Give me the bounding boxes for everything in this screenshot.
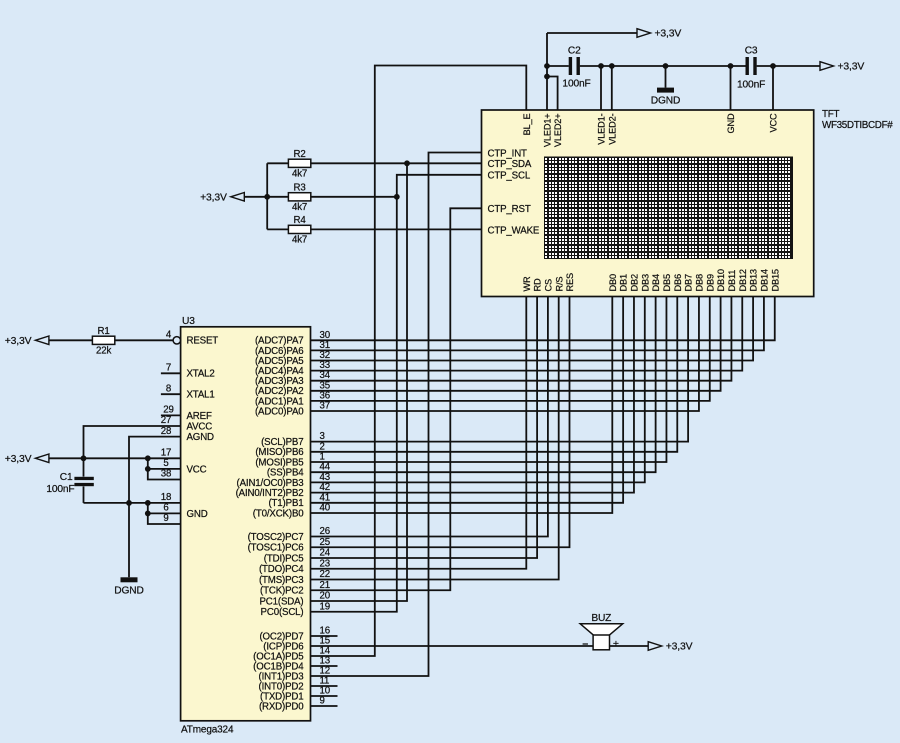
svg-text:+3,3V: +3,3V [655,29,682,40]
svg-text:R2: R2 [294,149,306,160]
svg-text:+3,3V: +3,3V [5,336,32,347]
svg-text:DB12: DB12 [738,269,748,291]
svg-text:DB4: DB4 [651,274,661,291]
svg-text:R1: R1 [98,326,110,337]
svg-text:4k7: 4k7 [292,235,307,246]
svg-text:U3: U3 [182,316,195,327]
svg-text:BUZ: BUZ [591,613,611,624]
svg-text:RES: RES [565,273,575,291]
svg-text:CTP_RST: CTP_RST [488,204,531,215]
svg-text:CTP_SDA: CTP_SDA [488,159,532,170]
svg-text:28: 28 [161,426,171,437]
svg-text:4k7: 4k7 [292,169,307,180]
svg-text:DB8: DB8 [695,274,705,291]
svg-text:9: 9 [320,696,325,707]
svg-text:DGND: DGND [114,585,143,596]
svg-text:TFT: TFT [822,109,839,120]
svg-text:R3: R3 [294,183,306,194]
svg-text:VLED1-: VLED1- [597,113,607,144]
svg-text:VCC: VCC [769,113,779,132]
svg-text:(RXD)PD0: (RXD)PD0 [259,701,304,712]
svg-text:WR: WR [522,276,532,292]
svg-text:100nF: 100nF [737,80,765,91]
svg-text:29: 29 [163,405,173,416]
svg-text:4k7: 4k7 [292,202,307,213]
svg-text:CS: CS [544,279,554,291]
svg-text:8: 8 [166,383,171,394]
svg-text:38: 38 [161,469,171,480]
svg-text:DB15: DB15 [770,269,780,291]
svg-text:RD: RD [533,278,543,291]
svg-text:DB0: DB0 [608,274,618,291]
svg-text:(TOSC2)PC7: (TOSC2)PC7 [248,532,304,543]
svg-text:GND: GND [187,509,208,520]
svg-text:(TMS)PC3: (TMS)PC3 [259,575,304,586]
svg-text:27: 27 [161,415,171,426]
svg-text:–: – [582,638,588,650]
svg-text:100nF: 100nF [46,484,74,495]
svg-text:(TOSC1)PC6: (TOSC1)PC6 [248,543,304,554]
svg-text:C2: C2 [568,46,581,57]
svg-text:(TDI)PC5: (TDI)PC5 [264,553,304,564]
svg-text:26: 26 [320,526,330,537]
svg-text:PC1(SDA): PC1(SDA) [259,596,303,607]
svg-text:C1: C1 [60,472,73,483]
svg-text:4: 4 [166,330,172,341]
svg-text:AGND: AGND [187,432,215,443]
svg-text:DB11: DB11 [727,270,737,292]
svg-text:DB9: DB9 [705,274,715,291]
svg-text:20: 20 [320,591,331,602]
svg-text:(TCK)PC2: (TCK)PC2 [260,586,303,597]
svg-text:5: 5 [163,458,168,469]
svg-text:(T0/XCK)B0: (T0/XCK)B0 [253,508,304,519]
svg-text:RESET: RESET [187,336,219,347]
svg-text:22k: 22k [96,346,111,357]
svg-text:100nF: 100nF [562,79,590,90]
svg-text:DB10: DB10 [716,269,726,291]
svg-text:+3,3V: +3,3V [666,642,693,653]
svg-text:DB5: DB5 [662,274,672,291]
svg-text:R/S: R/S [554,277,564,292]
svg-text:VLED1+: VLED1+ [543,114,553,148]
svg-text:+3,3V: +3,3V [200,193,227,204]
svg-text:VLED2-: VLED2- [607,113,617,144]
svg-text:CTP_WAKE: CTP_WAKE [488,225,540,236]
svg-text:+3,3V: +3,3V [5,454,32,465]
svg-text:22: 22 [320,569,330,580]
svg-text:DB2: DB2 [630,274,640,291]
svg-text:25: 25 [320,537,330,548]
svg-text:23: 23 [320,558,330,569]
svg-text:AREF: AREF [187,411,212,422]
svg-text:VCC: VCC [187,464,207,475]
svg-text:WF35DTIBCDF#: WF35DTIBCDF# [822,120,893,131]
svg-text:(ADC0)PA0: (ADC0)PA0 [255,406,304,417]
svg-text:DB6: DB6 [673,274,683,291]
svg-text:19: 19 [320,601,330,612]
svg-text:XTAL2: XTAL2 [187,369,215,380]
svg-text:6: 6 [163,503,168,514]
svg-text:7: 7 [166,363,171,374]
svg-text:+: + [613,638,619,650]
svg-text:DB14: DB14 [760,269,770,291]
svg-text:BL_E: BL_E [522,113,532,135]
svg-text:R4: R4 [294,215,307,226]
svg-text:21: 21 [320,580,330,591]
svg-text:17: 17 [161,448,171,459]
svg-text:XTAL1: XTAL1 [187,390,215,401]
svg-text:37: 37 [320,401,330,412]
svg-text:24: 24 [320,548,331,559]
svg-text:18: 18 [161,492,171,503]
svg-text:ATmega324: ATmega324 [181,724,234,735]
svg-text:DB1: DB1 [619,274,629,291]
svg-text:GND: GND [726,113,736,133]
svg-text:CTP_SCL: CTP_SCL [488,171,531,182]
svg-text:AVCC: AVCC [187,421,213,432]
svg-text:C3: C3 [745,46,758,57]
svg-text:DB7: DB7 [684,274,694,291]
svg-text:DB13: DB13 [749,269,759,291]
svg-text:PC0(SCL): PC0(SCL) [261,607,304,618]
svg-text:(TDO)PC4: (TDO)PC4 [259,564,304,575]
svg-text:9: 9 [163,513,168,524]
svg-text:+3,3V: +3,3V [838,62,865,73]
svg-text:CTP_INT: CTP_INT [488,148,528,159]
svg-text:DB3: DB3 [640,274,650,291]
svg-text:DGND: DGND [651,96,680,107]
svg-text:40: 40 [320,503,331,514]
svg-text:VLED2+: VLED2+ [553,114,563,148]
